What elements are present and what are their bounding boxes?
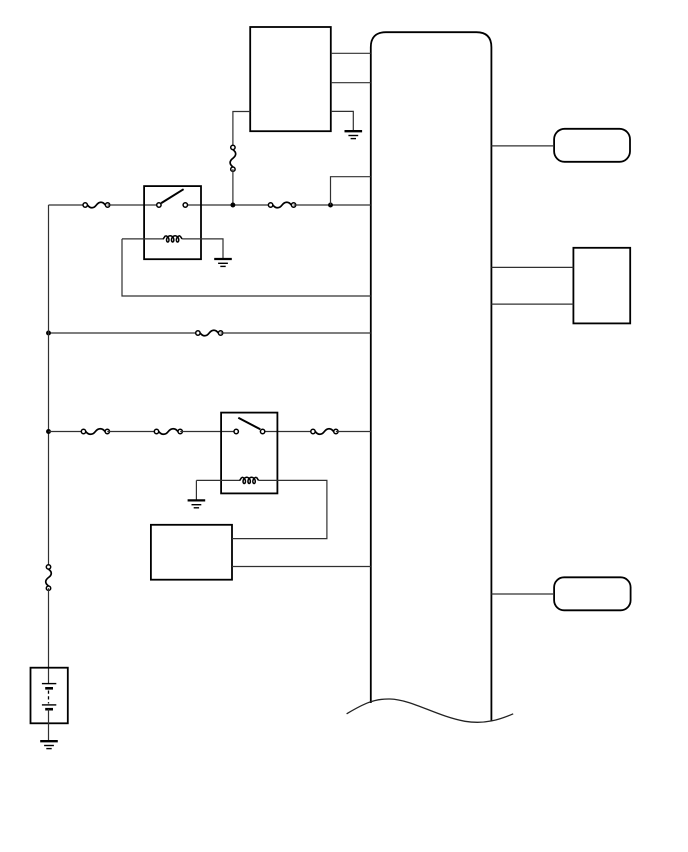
relay K1	[144, 186, 201, 259]
wire F1 to relay K1 contact	[108, 204, 159, 206]
wire row3 left	[49, 431, 84, 433]
node D (junction dot)	[46, 429, 51, 434]
ECU main box U1 (torn bottom edge)	[371, 32, 492, 720]
wire K1 coil left lead	[122, 238, 164, 240]
wire U1 to P1	[491, 145, 554, 147]
wire M1 left pin down to fuse F7	[233, 112, 250, 148]
fuse F2	[273, 202, 291, 208]
relay K2 switch contact left	[234, 429, 238, 433]
relay K2 coil	[240, 477, 259, 483]
wire M3 to U1	[232, 566, 371, 568]
wire battery negative to ground	[48, 709, 50, 741]
wire U1 to M2 pin2	[491, 303, 573, 305]
wire K1 contact to fuse F2	[185, 204, 270, 206]
ground G3 (relay K2 coil)	[188, 500, 206, 507]
fuse F6	[315, 429, 333, 435]
wire F5 to relay K2 contact	[180, 431, 236, 433]
relay K2 switch blade	[238, 418, 260, 430]
wire M1 right pin2 to U1	[331, 82, 371, 84]
wire K1 coil right lead to ground	[182, 239, 223, 259]
wire battery feed row1 left	[49, 204, 86, 206]
battery BT1 dashed link	[48, 691, 50, 704]
connector pad P1 (right top)	[554, 129, 630, 162]
relay K1 switch contact right	[183, 203, 187, 207]
main battery bus (vertical)	[48, 205, 50, 567]
module box M1 (top)	[250, 27, 331, 131]
wire F4 to F5	[107, 431, 156, 433]
wire K2 contact to fuse F6	[263, 431, 313, 433]
fuse F1	[88, 202, 106, 208]
ground G2 (relay K1 coil)	[214, 259, 232, 266]
battery BT1 plate short top	[45, 687, 53, 690]
wire F3 to U1	[221, 332, 371, 334]
wire F7 to node A	[232, 169, 234, 205]
battery BT1 plate short bottom	[45, 708, 53, 711]
battery BT1 plate long bottom	[42, 704, 56, 706]
wire node B branch up to U1	[331, 177, 371, 205]
fuse F8 (vertical, battery feed)	[46, 569, 52, 586]
wire U1 to P2	[491, 593, 554, 595]
relay K1 switch blade	[161, 189, 183, 203]
ground G4 (battery)	[40, 741, 58, 748]
fuse F5	[159, 429, 178, 435]
battery BT1 plate long top	[42, 683, 56, 685]
relay K1 switch contact left	[157, 203, 161, 207]
wire F8 to battery	[48, 588, 50, 683]
node A (junction dot)	[230, 203, 235, 208]
component box M2 (right middle)	[573, 248, 630, 324]
fuse F7 (vertical)	[230, 150, 236, 167]
wire K2 coil left lead down to ground	[195, 480, 197, 500]
battery BT1 box	[31, 668, 68, 724]
wire row2 left	[49, 332, 198, 334]
ground G1 (module M1)	[345, 131, 363, 138]
wire K1 coil left lead down and right to U1	[122, 239, 371, 296]
node C (junction dot)	[46, 331, 51, 336]
wire M1 right pin3 to ground	[331, 111, 354, 131]
torn-edge wave at bottom of U1	[347, 699, 514, 722]
wire U1 to M2 pin1	[491, 266, 573, 268]
wire F6 to U1	[336, 431, 371, 433]
relay K2 switch contact right	[260, 429, 264, 433]
fuse F4	[86, 429, 105, 435]
component box M3 (lower left of U1)	[151, 525, 232, 580]
relay K1 coil	[163, 236, 182, 242]
connector pad P2 (right bottom)	[554, 577, 631, 610]
fuse F3	[200, 330, 218, 336]
wire K2 coil right lead to M3	[232, 480, 327, 538]
wire K2 coil left lead	[196, 479, 240, 481]
wire F2 to U1	[294, 204, 371, 206]
node B (junction dot)	[328, 203, 333, 208]
wire M1 right pin1 to U1	[331, 52, 371, 54]
relay K2	[221, 413, 277, 494]
